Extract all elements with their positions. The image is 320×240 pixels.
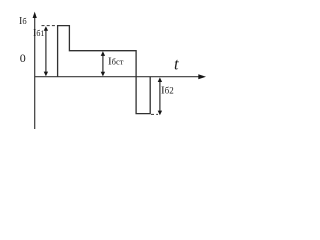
svg-text:Iб1: Iб1	[33, 28, 44, 39]
svg-text:Iб: Iб	[19, 16, 27, 27]
svg-text:t: t	[174, 55, 179, 74]
svg-text:0: 0	[20, 51, 26, 65]
svg-text:Iб2: Iб2	[161, 85, 174, 97]
svg-text:Iбст: Iбст	[108, 56, 124, 68]
